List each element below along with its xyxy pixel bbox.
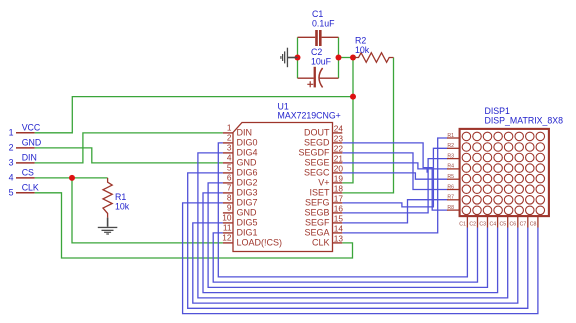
svg-text:SEGF: SEGF [305, 218, 330, 228]
pin 7 DIG3 [223, 182, 258, 197]
display LED circles [462, 132, 544, 214]
svg-text:R7: R7 [447, 195, 454, 201]
svg-text:20: 20 [334, 163, 344, 173]
svg-text:R2: R2 [447, 143, 454, 149]
pin 2 DIG0 [223, 132, 258, 147]
svg-text:R1: R1 [447, 133, 454, 139]
svg-text:ISET: ISET [309, 188, 330, 198]
svg-text:22: 22 [334, 143, 344, 153]
svg-text:19: 19 [334, 173, 344, 183]
svg-text:4: 4 [227, 152, 232, 162]
svg-text:SEGC: SEGC [304, 168, 330, 178]
svg-text:SEGD: SEGD [304, 138, 330, 148]
wire SEGC pin20 to display R5 [342, 173, 447, 179]
svg-text:DIG1: DIG1 [237, 228, 258, 238]
svg-text:6: 6 [227, 172, 232, 182]
svg-text:9: 9 [227, 202, 232, 212]
svg-text:C2: C2 [469, 222, 476, 228]
junction dot [350, 94, 356, 100]
pin 17 SEFG [305, 193, 343, 207]
svg-text:10k: 10k [355, 45, 370, 55]
svg-text:LOAD(!CS): LOAD(!CS) [237, 238, 283, 248]
svg-text:18: 18 [334, 183, 344, 193]
node R2 [447, 143, 460, 149]
wire VCC terminal to top rail [35, 97, 353, 133]
svg-text:DIG6: DIG6 [237, 168, 258, 178]
svg-text:3: 3 [9, 158, 14, 168]
svg-text:3: 3 [227, 142, 232, 152]
wire DIG0 to display C1 [218, 143, 467, 277]
svg-text:21: 21 [334, 153, 344, 163]
svg-text:5: 5 [9, 187, 14, 197]
capacitor C1 [298, 9, 339, 46]
pin 11 DIG1 [223, 222, 258, 237]
ground [280, 48, 297, 67]
svg-text:2: 2 [9, 143, 14, 153]
svg-text:14: 14 [334, 223, 344, 233]
svg-text:DIG5: DIG5 [237, 218, 258, 228]
pin 9 GND [223, 202, 257, 217]
wire DIG3 to display C4 [203, 193, 498, 293]
svg-text:1: 1 [9, 127, 14, 137]
wire SEGDF pin22 to display R6 [342, 153, 447, 190]
pin 8 DIG7 [223, 192, 258, 207]
junction dot [69, 175, 75, 181]
svg-text:SEGB: SEGB [304, 208, 329, 218]
wire decoupling loop right [338, 37, 340, 78]
svg-text:DIN: DIN [237, 128, 253, 138]
svg-text:DIN: DIN [22, 152, 37, 162]
svg-text:GND: GND [237, 158, 258, 168]
svg-text:GND: GND [22, 137, 42, 147]
pin 23 SEGD [304, 133, 343, 147]
svg-text:GND: GND [237, 208, 258, 218]
svg-text:10: 10 [222, 212, 232, 222]
node R8 [447, 205, 460, 211]
svg-text:11: 11 [223, 222, 232, 232]
node R5 [447, 174, 460, 180]
pin 21 SEGE [304, 153, 343, 167]
node C8 [530, 217, 538, 228]
svg-text:10k: 10k [115, 202, 130, 212]
svg-text:CS: CS [22, 167, 34, 177]
junction dot [295, 55, 301, 61]
wire stub [426, 168, 428, 173]
node C6 [510, 217, 518, 228]
svg-text:17: 17 [334, 193, 344, 203]
node R6 [447, 184, 460, 190]
wire GND terminal to U1 pin 4 [35, 148, 223, 163]
pin 15 SEGF [305, 213, 343, 227]
wire loop to R2 [339, 57, 354, 59]
wire DIG1 to display C2 [213, 228, 477, 283]
wire SEGE pin21 to display R4 [342, 163, 447, 169]
svg-text:8: 8 [227, 192, 232, 202]
wire DIG5 to display C6 [193, 223, 518, 303]
wire DIG2 to display C3 [208, 183, 487, 288]
svg-text:R6: R6 [447, 184, 454, 190]
wire DIG6 to display C7 [188, 173, 528, 308]
pin 16 SEGB [304, 203, 343, 217]
junction dot [336, 55, 342, 61]
wire DIG4 to display C5 [198, 153, 508, 298]
svg-text:DIG0: DIG0 [237, 138, 258, 148]
svg-text:DOUT: DOUT [304, 128, 330, 138]
svg-text:DIG2: DIG2 [237, 178, 258, 188]
svg-text:23: 23 [334, 133, 344, 143]
display DISP1 DISP_MATRIX_8X8 body [460, 106, 564, 216]
svg-text:24: 24 [334, 123, 344, 133]
op-amp U1 MAX7219CNG+ body [233, 102, 341, 252]
resistor R1 [103, 178, 130, 218]
terminal CLK pin 5 [9, 182, 39, 197]
node C4 [489, 217, 497, 228]
wire V+ net: top junction down to U1 pin 19 [342, 58, 353, 183]
terminal CS pin 4 [9, 167, 35, 182]
node C1 [459, 217, 467, 228]
svg-text:0.1uF: 0.1uF [312, 19, 335, 29]
svg-text:SEGDF: SEGDF [298, 148, 330, 158]
svg-text:DISP1: DISP1 [485, 106, 511, 116]
svg-text:7: 7 [227, 182, 232, 192]
wire SEGB pin16 to display R3 [342, 159, 447, 213]
terminal GND pin 2 [9, 137, 42, 152]
pin 14 SEGA [304, 223, 343, 237]
svg-text:DISP_MATRIX_8X8: DISP_MATRIX_8X8 [485, 115, 564, 125]
pin 19 V+ [318, 173, 343, 187]
node R1 [447, 133, 460, 139]
svg-text:C5: C5 [500, 222, 507, 228]
node C5 [500, 217, 508, 228]
capacitor C2 [298, 47, 339, 87]
wire decoupling loop left [297, 37, 299, 78]
svg-text:SEGA: SEGA [304, 228, 329, 238]
svg-text:R8: R8 [447, 205, 454, 211]
pin 5 DIG6 [223, 162, 258, 177]
wire CLK terminal to U1 pin 13 [35, 193, 353, 258]
svg-text:16: 16 [334, 203, 344, 213]
ground [98, 218, 118, 235]
wire DIN terminal to U1 pin 1 [35, 133, 223, 163]
svg-text:5: 5 [227, 162, 232, 172]
pin 20 SEGC [304, 163, 343, 177]
svg-text:2: 2 [227, 132, 232, 142]
svg-text:12: 12 [222, 232, 232, 242]
resistor R2 [354, 35, 394, 62]
svg-text:C6: C6 [510, 222, 517, 228]
svg-text:MAX7219CNG+: MAX7219CNG+ [278, 111, 341, 121]
svg-text:SEFG: SEFG [305, 198, 330, 208]
svg-text:SEGE: SEGE [304, 158, 329, 168]
svg-text:VCC: VCC [22, 122, 41, 132]
svg-text:4: 4 [9, 173, 14, 183]
svg-text:CLK: CLK [312, 238, 330, 248]
pin 22 SEGDF [298, 143, 343, 157]
svg-text:DIG3: DIG3 [237, 188, 258, 198]
svg-text:C3: C3 [479, 222, 486, 228]
svg-text:R1: R1 [115, 192, 126, 202]
svg-text:C7: C7 [520, 222, 527, 228]
node C2 [469, 217, 477, 228]
pin 3 DIG4 [223, 142, 258, 157]
node C3 [479, 217, 487, 228]
svg-text:R3: R3 [447, 153, 454, 159]
svg-text:1: 1 [227, 122, 232, 132]
svg-text:R5: R5 [447, 174, 454, 180]
node C7 [520, 217, 528, 228]
svg-text:R4: R4 [447, 164, 454, 170]
svg-text:C1: C1 [459, 222, 466, 228]
pin 13 CLK [312, 233, 343, 247]
pin 6 DIG2 [223, 172, 258, 187]
svg-text:C8: C8 [530, 222, 537, 228]
svg-text:C4: C4 [489, 222, 496, 228]
svg-text:CLK: CLK [22, 182, 39, 192]
terminal DIN pin 3 [9, 152, 37, 167]
wire DIG7 to display C8 [183, 203, 538, 314]
svg-text:13: 13 [334, 233, 344, 243]
svg-text:DIG7: DIG7 [237, 198, 258, 208]
wire SEGA pin14 to display R1 [342, 138, 447, 233]
wire SEGD pin23 to display R8 [342, 143, 447, 210]
pin 4 GND [223, 152, 257, 167]
pin 12 LOAD(!CS) [222, 232, 282, 247]
svg-text:R2: R2 [355, 35, 366, 45]
pin 24 DOUT [304, 123, 343, 137]
svg-text:10uF: 10uF [311, 56, 332, 66]
junction dot [350, 55, 356, 61]
node R7 [447, 195, 460, 201]
svg-text:DIG4: DIG4 [237, 148, 258, 158]
wire SEFG pin17 to display R2 [342, 148, 447, 207]
svg-text:15: 15 [334, 213, 344, 223]
wire CS terminal to R1 and U1 pin 12 [35, 177, 108, 179]
wire SEGF pin15 to display R7 [342, 200, 447, 223]
pin 1 DIN [223, 122, 252, 137]
svg-text:V+: V+ [318, 178, 329, 188]
terminal VCC pin 1 [9, 122, 41, 137]
pin 10 DIG5 [222, 212, 257, 227]
node R4 [447, 164, 460, 170]
node R3 [447, 153, 460, 159]
wire R2 right to ISET pin 18 [342, 58, 393, 193]
pin 18 ISET [309, 183, 343, 197]
